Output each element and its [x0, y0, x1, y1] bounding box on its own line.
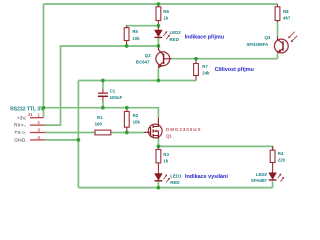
svg-text:1k: 1k: [163, 159, 168, 164]
svg-text:4k7: 4k7: [283, 16, 291, 21]
pin 4 GND: [30, 139, 45, 141]
resistor R7: [194, 59, 211, 81]
resistor R1: [95, 115, 112, 135]
svg-text:220: 220: [278, 158, 286, 163]
wire C1 top lead: [102, 81, 104, 90]
svg-text:Q3: Q3: [265, 35, 271, 40]
node R5 top tap: [157, 24, 161, 28]
svg-text:100uF: 100uF: [110, 95, 123, 100]
wire GND vertical: [77, 81, 79, 188]
wire R8 bottom to Q3 collector: [277, 21, 279, 37]
MOSFET Q1 DMG2305UX: [144, 118, 202, 139]
capacitor C1: [98, 89, 123, 101]
resistor R3: [156, 146, 169, 167]
svg-text:R8: R8: [283, 9, 289, 14]
svg-text:160: 160: [95, 122, 103, 127]
svg-text:Indikace vysílání: Indikace vysílání: [185, 174, 228, 180]
wire GND bottom rail: [78, 187, 272, 189]
svg-text:Q1: Q1: [166, 133, 172, 138]
svg-text:LED1: LED1: [170, 173, 182, 178]
svg-text:DMG2305UX: DMG2305UX: [166, 127, 202, 132]
svg-text:10k: 10k: [132, 36, 140, 41]
svg-text:SFH487: SFH487: [251, 178, 268, 183]
node Q2 emitter gnd: [157, 79, 161, 83]
svg-text:RX<-,: RX<-,: [14, 123, 27, 129]
node +3V tap: [42, 106, 46, 110]
node LED1 gnd: [157, 186, 161, 190]
node R6 top: [157, 2, 161, 6]
svg-text:Citlivost přijmu: Citlivost přijmu: [215, 67, 254, 73]
node Q1 drain: [157, 145, 161, 149]
wire LED3 cathode to junction: [157, 38, 159, 46]
node GND pin4: [77, 138, 81, 142]
svg-text:LED2: LED2: [256, 172, 268, 177]
LED1: [155, 167, 183, 185]
connector J1: [10, 107, 45, 144]
svg-text:R2: R2: [133, 113, 139, 118]
LED2 SFH487: [251, 166, 284, 183]
wire LED1 cathode to GND: [157, 181, 159, 188]
svg-text:TX->,: TX->,: [14, 130, 26, 136]
wire Q1 drain to R4: [158, 146, 272, 150]
svg-text:24k: 24k: [202, 71, 210, 76]
wire GND upper horizontal (C1, Q2 emitter, R7): [78, 80, 196, 82]
svg-text:GND,: GND,: [14, 138, 26, 144]
wire Q3 emitter drop: [277, 53, 279, 59]
node R2 top: [125, 106, 129, 110]
wire RX net: pin2 to Q2 collector: [45, 46, 158, 125]
wire Q2 emitter to GND: [157, 68, 159, 81]
resistor R5: [124, 26, 140, 46]
node RX / Q2 collector: [157, 44, 161, 48]
phototransistor Q3: [247, 32, 298, 53]
svg-text:RED: RED: [170, 37, 179, 42]
node C1 gnd: [101, 79, 105, 83]
wire TX net: pin3 to R1: [45, 132, 95, 134]
wire C1 bottom lead: [102, 100, 104, 107]
wire GND net pin4: [45, 139, 78, 141]
wire top +3V rail: [44, 3, 278, 5]
svg-text:10k: 10k: [133, 120, 141, 125]
pin 3 TX: [30, 132, 45, 134]
svg-text:R5: R5: [132, 29, 138, 34]
resistor R2: [124, 108, 140, 133]
resistor R8: [275, 4, 291, 22]
wire LED2 cathode riser: [272, 181, 274, 187]
svg-text:Q2: Q2: [145, 53, 151, 58]
pin 1 +3V: [30, 117, 44, 119]
wire R5 top tap: [127, 26, 159, 28]
svg-text:LED3: LED3: [170, 30, 182, 35]
node R2 bottom / gate: [125, 131, 129, 135]
svg-text:+3V,: +3V,: [17, 115, 27, 121]
svg-text:RED: RED: [170, 180, 179, 185]
svg-text:R3: R3: [163, 152, 169, 157]
svg-text:BC847: BC847: [136, 59, 150, 64]
resistor R6: [156, 4, 169, 26]
svg-text:R4: R4: [278, 151, 284, 156]
node C1 plus: [101, 106, 105, 110]
wire +3V horizontal rail to Q1 source: [44, 108, 159, 118]
svg-text:J1: J1: [28, 112, 33, 117]
svg-text:1k: 1k: [163, 15, 168, 20]
svg-text:R1: R1: [97, 115, 103, 120]
resistor R4: [270, 146, 285, 166]
node R7 top: [194, 57, 198, 61]
svg-text:Indikace přijmu: Indikace přijmu: [185, 35, 225, 41]
wire R1 to Q1 gate: [111, 132, 144, 134]
svg-text:C1: C1: [110, 89, 116, 94]
svg-text:R7: R7: [202, 64, 208, 69]
LED3: [155, 26, 182, 42]
svg-text:R6: R6: [163, 9, 169, 14]
pin 2 RX: [30, 124, 45, 126]
transistor Q2 BC847: [136, 46, 172, 68]
wire Q1 drain down: [157, 139, 159, 146]
wire Q2 base to Q3 emitter: [172, 58, 278, 60]
wire left +3V vertical: [43, 4, 45, 118]
node R5 bottom tap: [125, 44, 129, 48]
svg-text:SFH309FA: SFH309FA: [247, 42, 270, 47]
